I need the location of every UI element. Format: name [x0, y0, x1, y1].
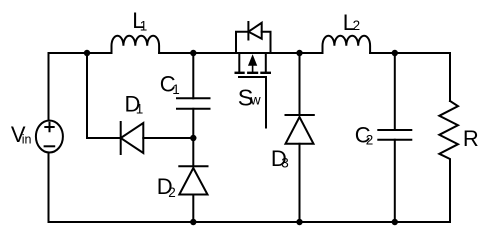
capacitor C1: [177, 98, 210, 109]
junction node D1-C1-D2: [190, 135, 196, 141]
svg-text:2: 2: [168, 185, 176, 200]
svg-text:2: 2: [353, 18, 361, 33]
wire top rail middle segment: [159, 52, 322, 54]
label R: [463, 126, 479, 151]
wire top rail right segment: [370, 52, 450, 54]
label Sw: [238, 85, 262, 111]
wire D3 to bottom rail: [299, 144, 301, 222]
label L1: [132, 8, 147, 33]
label D3: [271, 146, 289, 171]
svg-text:2: 2: [366, 133, 374, 148]
wire bottom rail: [49, 221, 451, 223]
label D1: [125, 92, 144, 117]
inductor L2: [323, 36, 371, 53]
wire D1 branch vertical: [86, 53, 88, 138]
junction node at L1 output: [190, 50, 196, 56]
wire C2 branch upper: [394, 53, 396, 130]
diode D3: [286, 115, 314, 144]
wire right rail upper: [449, 53, 451, 101]
wire D1 branch horizontal left: [87, 137, 121, 139]
wire C2 to bottom rail: [394, 140, 396, 222]
svg-text:w: w: [250, 91, 262, 107]
junction node at D3 top: [296, 50, 302, 56]
wire C1 to node: [192, 109, 194, 138]
wire left rail upper: [48, 53, 50, 120]
label Vin: [11, 122, 32, 147]
wire D2 to bottom rail: [192, 195, 194, 223]
svg-text:in: in: [22, 132, 32, 146]
wire C1 branch upper: [192, 53, 194, 98]
svg-text:1: 1: [172, 82, 180, 97]
label D2: [157, 174, 176, 200]
junction node D2 bottom: [190, 219, 196, 225]
svg-text:1: 1: [136, 101, 144, 116]
mosfet Sw body diode: [236, 22, 271, 53]
junction node D3 bottom: [296, 219, 302, 225]
svg-text:R: R: [463, 126, 479, 151]
wire D3 branch upper: [299, 53, 301, 115]
svg-text:3: 3: [281, 156, 289, 171]
label C2: [355, 123, 374, 148]
diode D2: [179, 166, 207, 194]
svg-text:1: 1: [140, 18, 148, 33]
wire left rail lower: [48, 153, 50, 222]
junction node C2 bottom: [392, 219, 398, 225]
junction node at L1 input: [84, 50, 90, 56]
inductor L1: [112, 36, 160, 53]
label C1: [160, 72, 180, 98]
label L2: [343, 10, 360, 35]
diode D1: [121, 122, 144, 154]
capacitor C2: [378, 130, 411, 140]
wire top rail left segment: [49, 52, 112, 54]
wire node to D2: [192, 138, 194, 166]
junction node at C2 top: [392, 50, 398, 56]
voltage source Vin: [36, 121, 63, 153]
wire right rail lower: [449, 163, 451, 222]
resistor R: [439, 101, 458, 163]
mosfet Sw: [236, 53, 270, 128]
wire D1 to node: [143, 137, 193, 139]
